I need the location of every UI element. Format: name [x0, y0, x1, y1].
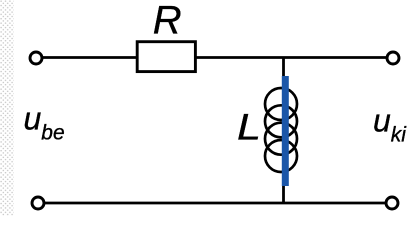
terminal: bottom-left port	[32, 197, 44, 209]
terminal: bottom-right port	[386, 197, 398, 209]
scanned page-edge halftone strip	[0, 0, 14, 216]
wire: bottom rail	[45, 202, 385, 205]
svg-text:R: R	[153, 0, 182, 43]
svg-text:L: L	[237, 107, 261, 148]
wire: top-left terminal to resistor R	[43, 56, 137, 59]
inductor L core bar	[282, 76, 289, 186]
inductor L coil turns	[265, 88, 297, 172]
terminal: top-right port	[387, 52, 399, 64]
terminal: top-left port	[30, 52, 42, 64]
wire: resistor R to top-right terminal, through node	[195, 56, 386, 59]
wire: vertical branch from node down to bottom rail	[282, 58, 285, 204]
resistor R body	[137, 42, 195, 72]
